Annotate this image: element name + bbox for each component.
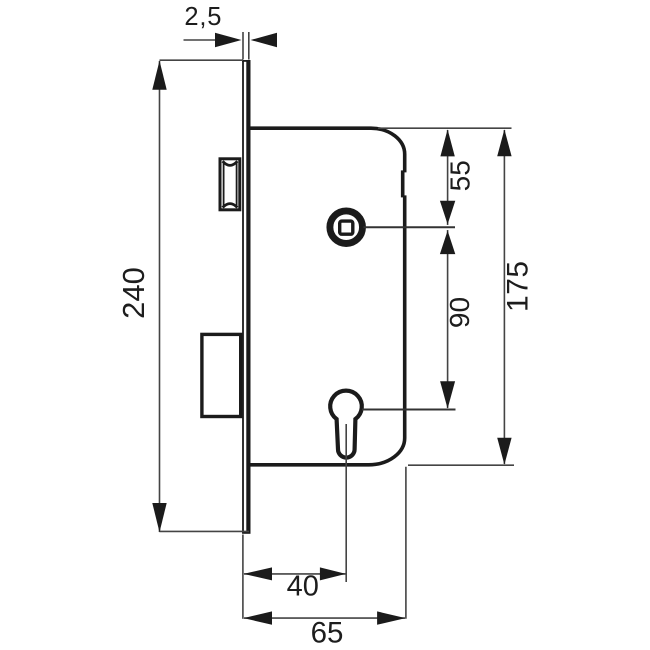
dim 175 arrows (497, 129, 511, 464)
dim 55 arrows (440, 129, 455, 224)
dim 40 label (287, 571, 319, 603)
svg-text:65: 65 (311, 617, 344, 650)
svg-text:240: 240 (116, 267, 151, 319)
dim 240 connectors (160, 60, 250, 531)
lock body (247, 128, 405, 465)
dim 65 line (244, 617, 405, 619)
dim 65 arrows (244, 611, 406, 624)
dim 90 line (447, 230, 449, 408)
body right bottom extension line (405, 467, 407, 619)
dim 40 line (244, 573, 346, 575)
body bottom extension line (408, 464, 514, 466)
dim 240 arrows (152, 61, 166, 533)
euro keyhole (330, 391, 362, 458)
dim 2,5 extension lines (243, 32, 249, 60)
dim 240 line (159, 61, 161, 532)
svg-text:90: 90 (444, 297, 475, 328)
deadbolt (202, 334, 241, 416)
dim 2,5 arrows (215, 33, 277, 47)
body top extension line (378, 127, 512, 129)
dim 175 label (501, 260, 534, 312)
dim 90 label (444, 297, 475, 328)
svg-text:55: 55 (445, 160, 476, 191)
dim 90 arrows (440, 231, 455, 409)
latch bolt (220, 159, 240, 210)
dim 2,5 leader (184, 39, 216, 41)
dim 55 label (445, 160, 476, 191)
svg-text:2,5: 2,5 (184, 3, 222, 31)
dim 65 label (311, 617, 344, 650)
faceplate bottom extension line (242, 535, 244, 619)
faceplate (242, 61, 250, 533)
svg-text:175: 175 (501, 260, 534, 312)
keyhole leader line (362, 409, 456, 411)
spindle leader line (364, 226, 456, 228)
dim 40 arrows (244, 567, 346, 580)
keyhole bottom extension line (345, 424, 347, 582)
dim 2,5 label (184, 3, 222, 31)
svg-text:40: 40 (287, 571, 319, 603)
spindle hub (330, 211, 363, 244)
dim 175 line (503, 130, 505, 464)
dim 240 label (116, 267, 151, 319)
dim 55 line (447, 130, 449, 225)
